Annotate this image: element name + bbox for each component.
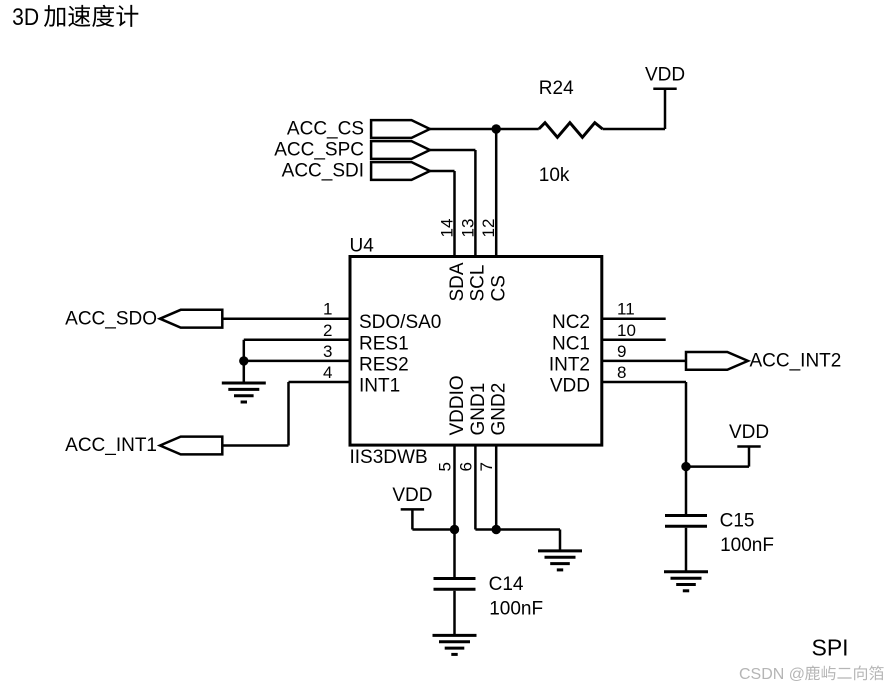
svg-text:11: 11: [617, 300, 635, 319]
svg-text:ACC_SPC: ACC_SPC: [274, 140, 364, 161]
pin 7 GND2: [477, 383, 510, 472]
svg-text:ACC_INT2: ACC_INT2: [750, 351, 842, 372]
svg-text:NC1: NC1: [552, 333, 590, 354]
svg-text:SDO/SA0: SDO/SA0: [359, 312, 441, 333]
node junction ACC_CS/CS: [492, 124, 501, 133]
svg-text:100nF: 100nF: [489, 599, 543, 620]
svg-text:IIS3DWB: IIS3DWB: [350, 447, 428, 468]
capacitor C15 100nF: [665, 510, 774, 556]
svg-text:SPI: SPI: [812, 635, 849, 661]
port ACC_SDI: [282, 161, 430, 182]
wire ACC_SDI to SDA pin: [430, 171, 455, 257]
wire pin8 VDD net: [602, 382, 749, 514]
svg-text:VDD: VDD: [392, 485, 432, 506]
svg-text:1: 1: [323, 300, 332, 319]
svg-text:VDDIO: VDDIO: [447, 375, 468, 435]
svg-text:INT1: INT1: [359, 376, 400, 397]
svg-text:ACC_SDI: ACC_SDI: [282, 161, 364, 182]
power VDD (C14): [392, 485, 432, 509]
svg-text:ACC_CS: ACC_CS: [287, 119, 364, 140]
capacitor C14 100nF: [434, 574, 544, 620]
pin 5 VDDIO: [436, 375, 469, 471]
ground (GND1/GND2): [538, 551, 582, 570]
pin 8 VDD: [550, 363, 627, 397]
node junction VDD/C15: [681, 462, 690, 471]
svg-text:100nF: 100nF: [720, 535, 774, 556]
wire GND1 GND2 to ground: [475, 445, 560, 551]
svg-text:SDA: SDA: [447, 262, 468, 301]
svg-text:SCL: SCL: [468, 265, 489, 302]
svg-text:CS: CS: [489, 275, 510, 301]
svg-text:VDD: VDD: [729, 422, 769, 443]
svg-text:NC2: NC2: [552, 312, 590, 333]
port ACC_SPC: [274, 140, 430, 161]
wire pin3 RES2: [244, 360, 350, 363]
wire C15 to ground: [685, 528, 688, 572]
pin 4 INT1: [323, 363, 400, 397]
pin 2 RES1: [323, 321, 409, 355]
wire VDDIO net: [412, 445, 454, 577]
svg-text:VDD: VDD: [645, 64, 685, 85]
ground (RES1/RES2): [222, 383, 266, 402]
wire pin2 RES1 to ground: [244, 340, 350, 383]
wire ACC_SPC to SCL pin: [430, 150, 476, 257]
pin 13 SCL: [458, 219, 488, 302]
svg-text:ACC_SDO: ACC_SDO: [65, 308, 157, 329]
power VDD (C15): [729, 422, 769, 446]
svg-text:RES1: RES1: [359, 333, 409, 354]
svg-text:9: 9: [617, 342, 626, 361]
svg-text:14: 14: [438, 219, 457, 238]
wire ACC_CS to R24 and CS pin: [430, 129, 665, 257]
ground (C14): [433, 635, 477, 654]
svg-text:C15: C15: [720, 510, 755, 531]
svg-text:12: 12: [479, 219, 498, 238]
op-amp U1 IC U4 IIS3DWB body: [350, 236, 602, 469]
pin 3 RES2: [323, 342, 409, 376]
wire pin10 NC1: [602, 339, 666, 342]
pin 9 INT2: [549, 342, 627, 376]
port ACC_SDO: [65, 308, 222, 329]
svg-text:GND1: GND1: [468, 383, 489, 436]
watermark CSDN: [739, 665, 884, 683]
wire pin1 to ACC_SDO: [222, 317, 350, 320]
ground (C15): [664, 572, 708, 591]
port ACC_INT1: [65, 435, 222, 456]
svg-text:5: 5: [436, 462, 455, 471]
pin 1 SDO/SA0: [323, 300, 441, 334]
pin 14 SDA: [438, 219, 468, 302]
wire pin11 NC2: [602, 317, 666, 320]
svg-text:INT2: INT2: [549, 354, 590, 375]
wire C14 to ground: [453, 591, 456, 636]
wire pin9 INT2 to ACC_INT2: [602, 360, 686, 363]
svg-text:7: 7: [477, 462, 496, 471]
wire pin4 INT1 to ACC_INT1: [222, 382, 350, 446]
svg-text:6: 6: [456, 462, 475, 471]
svg-text:2: 2: [323, 321, 332, 340]
svg-text:R24: R24: [539, 78, 574, 99]
port ACC_CS: [287, 119, 430, 140]
svg-text:C14: C14: [489, 574, 524, 595]
svg-text:13: 13: [458, 219, 477, 238]
pin 6 GND1: [456, 383, 489, 472]
pin 12 CS: [479, 219, 509, 302]
svg-text:VDD: VDD: [550, 376, 590, 397]
node junction VDDIO/VDD: [450, 525, 459, 534]
pin 11 NC2: [552, 300, 635, 334]
svg-text:4: 4: [323, 363, 332, 382]
node junction RES1/RES2: [239, 356, 248, 365]
svg-text:8: 8: [617, 363, 626, 382]
title 3D加速度计: [12, 4, 138, 31]
port ACC_INT2: [686, 351, 841, 372]
power VDD (R24): [645, 64, 685, 129]
svg-text:GND2: GND2: [489, 383, 510, 436]
svg-text:10: 10: [617, 321, 636, 340]
node junction GND2: [492, 525, 501, 534]
pin 10 NC1: [552, 321, 636, 355]
svg-text:10k: 10k: [539, 165, 570, 186]
svg-text:ACC_INT1: ACC_INT1: [65, 435, 157, 456]
svg-text:3: 3: [323, 342, 332, 361]
svg-text:3D: 3D: [12, 4, 39, 31]
resistor R24 10k: [539, 78, 603, 186]
svg-text:CSDN @: CSDN @: [739, 666, 805, 683]
svg-text:RES2: RES2: [359, 354, 409, 375]
svg-text:U4: U4: [350, 236, 375, 257]
